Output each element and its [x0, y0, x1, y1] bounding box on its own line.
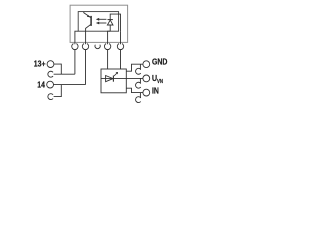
clamp contact GND: [136, 68, 141, 74]
socket contact pin 2: [82, 44, 88, 50]
wire 13+ junction to pin1: [54, 73, 75, 75]
optocoupler U1 box: [78, 12, 118, 32]
socket contact pin 4: [117, 44, 123, 50]
pin 3 wire: [108, 31, 111, 44]
socket contact pin 3: [104, 44, 110, 50]
clamp contact U_VN: [136, 82, 141, 88]
diode D2 triangle: [106, 76, 113, 82]
clamp contact 14: [48, 94, 53, 100]
wire IN to box lower right: [126, 88, 143, 92]
terminal circle 13+: [47, 61, 54, 68]
clamp stub IN: [139, 93, 141, 99]
svg-text:14: 14: [37, 80, 46, 90]
transistor Q1 lower lead: [86, 24, 92, 31]
wire pin2 to 14 node: [85, 50, 87, 85]
svg-text:UVN: UVN: [152, 74, 164, 84]
diode D2 arrow: [114, 73, 117, 76]
LED D1 triangle: [107, 20, 113, 25]
transistor Q1 upper lead with arrow: [84, 12, 91, 18]
svg-text:IN: IN: [152, 86, 159, 96]
pin 1 stub from opto box: [75, 31, 78, 44]
clamp drop 14: [54, 85, 62, 97]
socket contact pin 1: [72, 44, 78, 50]
input network box: [101, 69, 126, 93]
clamp stub GND: [139, 64, 141, 70]
LED D1 cathode bar: [108, 19, 113, 21]
pin 4 wire: [120, 31, 122, 44]
diode D2 cathode bar: [112, 76, 114, 82]
light arrow lower: [99, 22, 107, 24]
clamp contact IN: [136, 97, 141, 103]
LED D1 bottom lead: [109, 25, 111, 31]
terminal circle GND: [143, 61, 150, 68]
light arrow upper: [99, 18, 107, 20]
module housing box: [70, 5, 128, 42]
terminal circle U_VN: [143, 75, 150, 82]
terminal circle IN: [143, 89, 150, 96]
terminal circle 14: [47, 81, 54, 88]
empty socket contact: [95, 45, 100, 49]
wire U_VN to box right: [126, 77, 143, 79]
clamp stub U_VN: [139, 78, 141, 83]
svg-text:13+: 13+: [34, 59, 46, 69]
LED D1 top loop to pin 4: [110, 14, 120, 31]
wire 14 circle to pin2: [54, 84, 86, 86]
transistor Q1 base bar: [90, 16, 92, 26]
svg-text:GND: GND: [152, 57, 168, 67]
wire 13+ circle to junction: [54, 64, 61, 74]
wire GND to box top right: [126, 64, 143, 71]
wire pin3 to input box: [107, 50, 109, 69]
wire pin4 to input box: [120, 50, 122, 69]
clamp contact 13+: [48, 71, 53, 77]
diode D2 axis line: [101, 78, 126, 80]
pin 2 wire: [85, 31, 87, 44]
wire pin1 to 13+ node: [74, 50, 76, 75]
